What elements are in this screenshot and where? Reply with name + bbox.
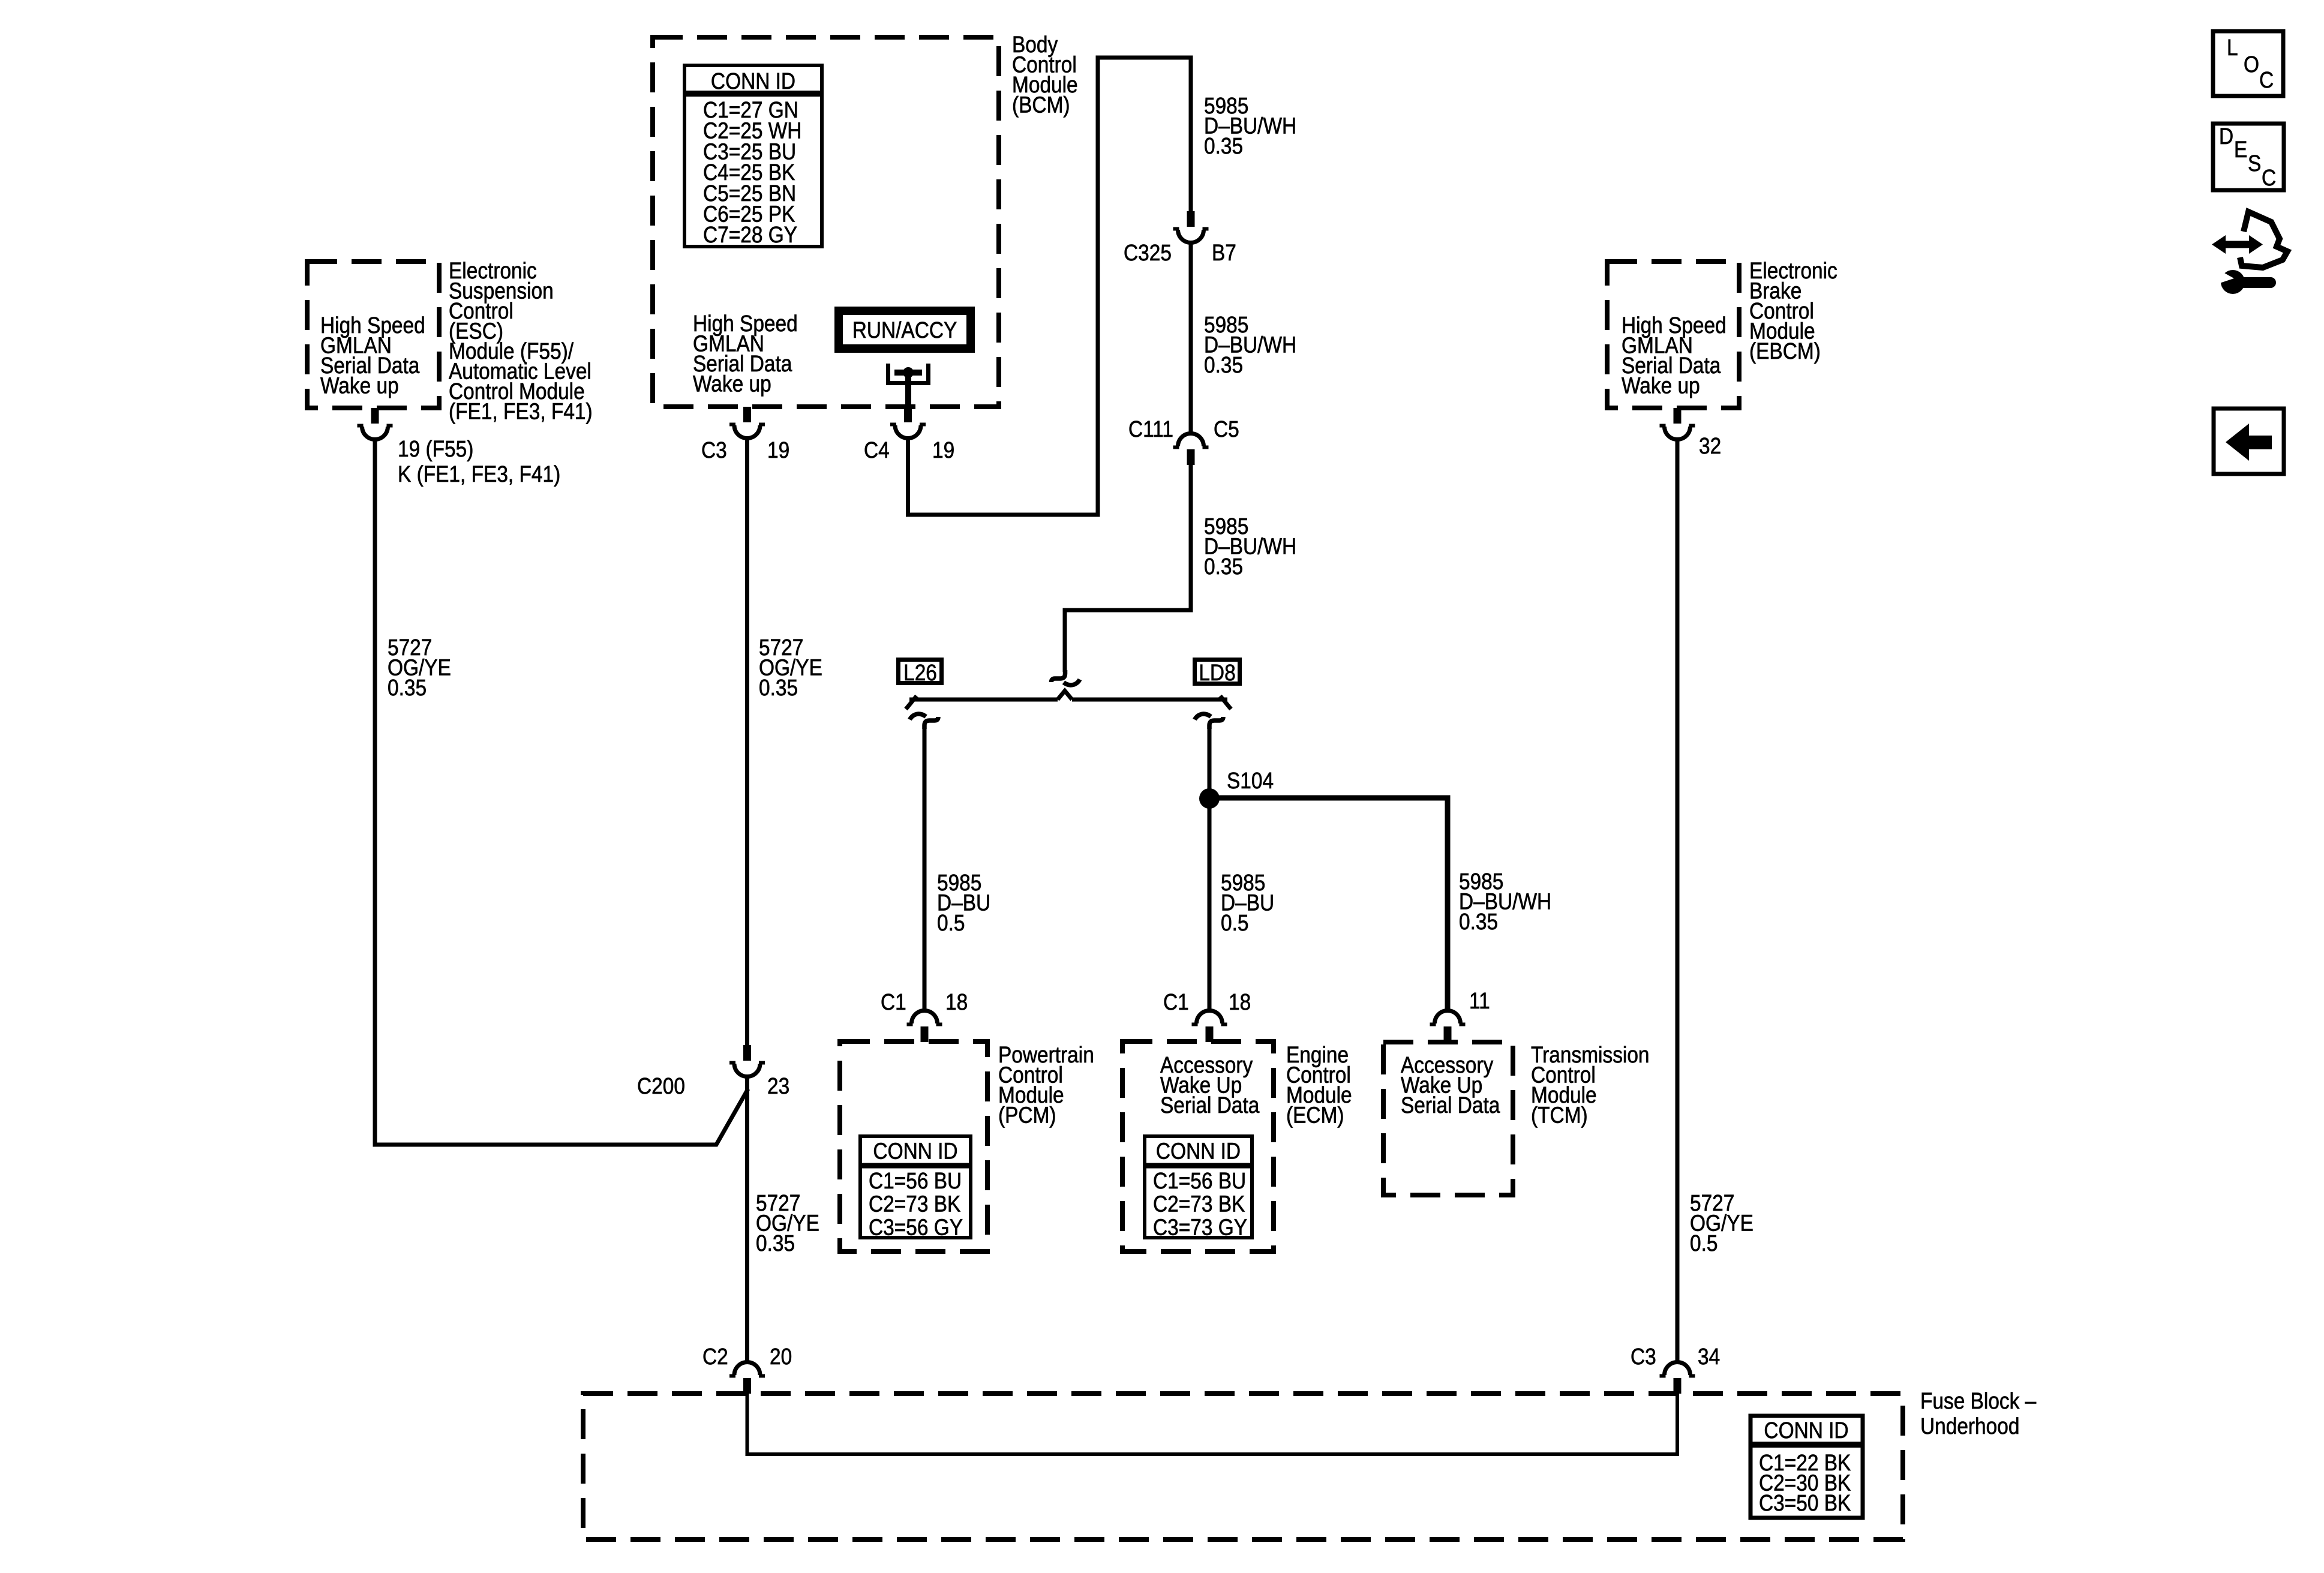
connector C200 pin 23 — [729, 1045, 765, 1077]
svg-text:O: O — [2244, 52, 2259, 77]
svg-text:Underhood: Underhood — [1920, 1413, 2019, 1439]
label: circuit 5727 OG/YE 0.5 (EBCM wire) — [1690, 1190, 1753, 1256]
label: 34 (fuse block) — [1698, 1344, 1720, 1369]
svg-text:C2: C2 — [702, 1344, 728, 1369]
svg-text:5727OG/YE0.35: 5727OG/YE0.35 — [388, 635, 451, 700]
splice S104 — [1199, 788, 1220, 809]
svg-text:RUN/ACCY: RUN/ACCY — [852, 317, 957, 343]
svg-text:C3=50 BK: C3=50 BK — [1759, 1490, 1851, 1515]
connector C1 pin 18 (ECM) — [1192, 1011, 1227, 1043]
svg-text:20: 20 — [770, 1344, 792, 1369]
table: ECM CONN ID (C1=56 BU, C2=73 BK, C3=73 GY) — [1145, 1136, 1252, 1240]
svg-text:11: 11 — [1469, 988, 1490, 1013]
connector ESC pin 19 — [358, 408, 393, 440]
svg-text:5985D–BU/WH0.35: 5985D–BU/WH0.35 — [1459, 869, 1551, 934]
connector pin 11 (TCM) — [1430, 1011, 1466, 1043]
svg-text:C111: C111 — [1128, 416, 1173, 442]
connector C3 pin 19 (BCM) — [729, 407, 765, 439]
table: BCM CONN ID (C1=27 GN ... C7=28 GY) — [684, 65, 822, 248]
svg-text:High SpeedGMLANSerial DataWake: High SpeedGMLANSerial DataWake up — [693, 311, 798, 397]
svg-text:C325: C325 — [1124, 240, 1172, 265]
break hook: PCM branch off bus — [910, 714, 939, 729]
svg-text:S: S — [2248, 151, 2261, 176]
svg-text:EngineControlModule(ECM): EngineControlModule(ECM) — [1286, 1042, 1352, 1128]
svg-text:19: 19 — [767, 437, 789, 463]
svg-text:B7: B7 — [1212, 240, 1236, 265]
svg-text:C200: C200 — [637, 1073, 685, 1098]
svg-text:L: L — [2227, 35, 2238, 60]
svg-text:CONN ID: CONN ID — [1764, 1418, 1848, 1443]
svg-text:AccessoryWake UpSerial Data: AccessoryWake UpSerial Data — [1401, 1052, 1500, 1118]
module box: Fuse Block - Underhood — [583, 1394, 1903, 1539]
table: Fuse Block CONN ID (C1=22 BK, C2=30 BK, C3=50 BK) — [1750, 1416, 1863, 1518]
label: circuit 5985 D-BU 0.5 (ECM branch) — [1221, 870, 1274, 935]
svg-text:C4: C4 — [864, 437, 890, 463]
break hook: ECM branch off bus — [1195, 714, 1224, 729]
label: High Speed GMLAN Serial Data Wake up (BCM) — [693, 311, 798, 397]
label: High Speed GMLAN Serial Data Wake up (EBCM) — [1622, 313, 1727, 398]
connector C3 pin 34 (fuse block) — [1660, 1362, 1695, 1394]
svg-text:LD8: LD8 — [1199, 660, 1235, 685]
label: C2 (fuse block) — [702, 1344, 728, 1369]
svg-text:High SpeedGMLANSerial DataWake: High SpeedGMLANSerial DataWake up — [1622, 313, 1727, 398]
label: Transmission Control Module (TCM) — [1531, 1042, 1650, 1128]
svg-text:ElectronicBrakeControlModule(E: ElectronicBrakeControlModule(EBCM) — [1749, 258, 1837, 364]
icon box: LOC — [2213, 31, 2283, 96]
label: 18 (PCM) — [945, 989, 968, 1014]
svg-text:34: 34 — [1698, 1344, 1720, 1369]
label: C3 (BCM) — [701, 437, 727, 463]
svg-text:C2=73 BK: C2=73 BK — [1153, 1191, 1245, 1217]
svg-text:C2=73 BK: C2=73 BK — [869, 1191, 960, 1217]
svg-text:C: C — [2259, 67, 2274, 92]
svg-text:CONN ID: CONN ID — [873, 1139, 957, 1164]
label: High Speed GMLAN Serial Data Wake up (ESC) — [320, 313, 425, 398]
label: 19 (C3 pin) — [767, 437, 789, 463]
svg-text:32: 32 — [1699, 433, 1721, 458]
svg-text:5727OG/YE0.35: 5727OG/YE0.35 — [756, 1190, 819, 1256]
svg-text:L26: L26 — [903, 660, 937, 685]
svg-text:C7=28 GY: C7=28 GY — [703, 222, 797, 247]
switch contact symbol below RUN/ACCY — [888, 364, 929, 409]
label: circuit 5727 OG/YE 0.35 (ESC wire) — [388, 635, 451, 700]
label: 23 (C200) — [767, 1073, 789, 1098]
icon box: back arrow — [2214, 409, 2284, 474]
wire: S104 to TCM branch — [1209, 798, 1448, 1011]
svg-text:19 (F55): 19 (F55) — [398, 436, 473, 461]
label: C325 — [1124, 240, 1172, 265]
label: S104 — [1227, 768, 1274, 793]
label: C3 (fuse block) — [1631, 1344, 1656, 1369]
label: circuit 5727 OG/YE 0.35 (upper C3 wire) — [759, 635, 822, 700]
svg-text:5727OG/YE0.35: 5727OG/YE0.35 — [759, 635, 822, 700]
module box: Engine Control Module (ECM) — [1122, 1041, 1274, 1251]
svg-text:23: 23 — [767, 1073, 789, 1098]
label: 19 (C4 pin) — [932, 437, 954, 463]
svg-text:D: D — [2219, 124, 2233, 149]
icon: harness connector with arrow and wrench — [2212, 212, 2287, 294]
connector C1 pin 18 (PCM) — [907, 1011, 942, 1043]
icon box: DESC — [2213, 124, 2284, 190]
svg-text:ElectronicSuspensionControl(ES: ElectronicSuspensionControl(ESC)Module (… — [449, 258, 593, 424]
label: 32 (EBCM) — [1699, 433, 1721, 458]
svg-text:C1=56 BU: C1=56 BU — [1153, 1168, 1246, 1193]
label: circuit 5727 OG/YE 0.35 (lower C3 wire) — [756, 1190, 819, 1256]
label: circuit 5985 D-BU/WH 0.35 (TCM branch) — [1459, 869, 1551, 934]
svg-text:C1: C1 — [881, 989, 906, 1014]
wire: C325 to C111 — [1189, 242, 1193, 433]
svg-text:C: C — [2262, 165, 2276, 190]
connector C2 pin 20 (fuse block) — [729, 1362, 765, 1394]
svg-text:5985D–BU/WH0.35: 5985D–BU/WH0.35 — [1204, 93, 1296, 158]
RPO box: LD8 — [1195, 660, 1240, 686]
svg-text:K (FE1, FE3, F41): K (FE1, FE3, F41) — [398, 461, 560, 487]
label: circuit 5985 D-BU 0.5 (PCM branch) — [937, 870, 990, 935]
label: Electronic Suspension Control (ESC) Module — [449, 258, 593, 424]
label: K (FE1, FE3, F41) — [398, 461, 560, 487]
svg-text:C1=56 BU: C1=56 BU — [869, 1168, 962, 1193]
connector C325 B7 — [1173, 211, 1209, 243]
svg-text:TransmissionControlModule(TCM): TransmissionControlModule(TCM) — [1531, 1042, 1650, 1128]
wire: BCM C3 19 down to C200 — [745, 438, 749, 1045]
label: Body Control Module (BCM) — [1012, 32, 1078, 118]
svg-text:High SpeedGMLANSerial DataWake: High SpeedGMLANSerial DataWake up — [320, 313, 425, 398]
svg-text:5985D–BU/WH0.35: 5985D–BU/WH0.35 — [1204, 514, 1296, 579]
label: C1 (PCM) — [881, 989, 906, 1014]
svg-text:5985D–BU0.5: 5985D–BU0.5 — [1221, 870, 1274, 935]
svg-text:18: 18 — [945, 989, 968, 1014]
svg-text:E: E — [2234, 137, 2247, 162]
label: Powertrain Control Module (PCM) — [998, 1042, 1094, 1128]
connector C111 C5 — [1173, 434, 1209, 466]
label: Fuse Block - Underhood — [1920, 1388, 2036, 1439]
label: 20 (fuse block) — [770, 1344, 792, 1369]
label: C111 — [1128, 416, 1173, 442]
label: Engine Control Module (ECM) — [1286, 1042, 1352, 1128]
svg-text:AccessoryWake UpSerial Data: AccessoryWake UpSerial Data — [1160, 1052, 1259, 1118]
svg-text:C3: C3 — [701, 437, 727, 463]
connector EBCM pin 32 — [1660, 408, 1695, 440]
svg-text:S104: S104 — [1227, 768, 1274, 793]
svg-text:PowertrainControlModule(PCM): PowertrainControlModule(PCM) — [998, 1042, 1094, 1128]
RPO box: L26 — [899, 660, 942, 686]
module box: Electronic Brake Control Module (EBCM) — [1607, 262, 1739, 408]
svg-text:C3=73 GY: C3=73 GY — [1153, 1214, 1247, 1239]
wire: EBCM 32 down to fuse block C3 34 — [1676, 439, 1680, 1362]
wire: C200 down to fuse block C2 — [745, 1076, 749, 1362]
block: RUN/ACCY voltage supply — [839, 311, 971, 349]
label: C200 — [637, 1073, 685, 1098]
svg-text:C3: C3 — [1631, 1344, 1656, 1369]
label: C1 (ECM) — [1163, 989, 1189, 1014]
svg-text:CONN ID: CONN ID — [1156, 1139, 1241, 1164]
wire: BCM C4 19 up and over to C325 — [908, 58, 1191, 515]
svg-text:5727OG/YE0.5: 5727OG/YE0.5 — [1690, 1190, 1753, 1256]
svg-text:CONN ID: CONN ID — [711, 68, 795, 94]
svg-text:18: 18 — [1229, 989, 1251, 1014]
bus: serial data splice bar (L26/LD8) — [906, 691, 1231, 710]
label: Accessory Wake Up Serial Data (TCM) — [1401, 1052, 1500, 1118]
svg-text:Fuse Block –: Fuse Block – — [1920, 1388, 2036, 1413]
wire: bus to ECM C1 18 through S104 — [1208, 727, 1212, 1011]
label: 18 (ECM) — [1229, 989, 1251, 1014]
connector C4 pin 19 (BCM) — [890, 407, 926, 439]
module box: Transmission Control Module (TCM) — [1383, 1042, 1513, 1195]
table: PCM CONN ID (C1=56 BU, C2=73 BK, C3=56 GY) — [860, 1136, 971, 1240]
label: C4 — [864, 437, 890, 463]
svg-text:C5: C5 — [1214, 416, 1239, 442]
svg-text:5985D–BU/WH0.35: 5985D–BU/WH0.35 — [1204, 312, 1296, 377]
wire: bus to PCM C1 18 — [923, 727, 927, 1011]
svg-text:5985D–BU0.5: 5985D–BU0.5 — [937, 870, 990, 935]
module box: Electronic Suspension Control Module — [307, 262, 439, 408]
label: B7 — [1212, 240, 1236, 265]
svg-text:C3=56 GY: C3=56 GY — [869, 1214, 963, 1239]
label: Accessory Wake Up Serial Data (ECM) — [1160, 1052, 1259, 1118]
svg-text:19: 19 — [932, 437, 954, 463]
label: Electronic Brake Control Module (EBCM) — [1749, 258, 1837, 364]
label: circuit 5985 D-BU/WH 0.35 (upper) — [1204, 93, 1296, 158]
label: 11 (TCM) — [1469, 988, 1490, 1013]
wire: fuse block internal bus C2 20 to C3 34 — [747, 1394, 1678, 1454]
wire: ESC 19 down and right to C200 — [375, 439, 748, 1145]
label: circuit 5985 D-BU/WH 0.35 (lower) — [1204, 514, 1296, 579]
label: 19 (F55) — [398, 436, 473, 461]
module box: Powertrain Control Module (PCM) — [840, 1041, 987, 1251]
label: C5 — [1214, 416, 1239, 442]
svg-text:C1: C1 — [1163, 989, 1189, 1014]
svg-text:BodyControlModule(BCM): BodyControlModule(BCM) — [1012, 32, 1078, 118]
break hook: feed into serial data bus — [1052, 670, 1080, 685]
label: circuit 5985 D-BU/WH 0.35 (middle) — [1204, 312, 1296, 377]
wire: C111 down and left to splice feed — [1065, 465, 1191, 672]
module box: Body Control Module (BCM) — [653, 37, 999, 407]
